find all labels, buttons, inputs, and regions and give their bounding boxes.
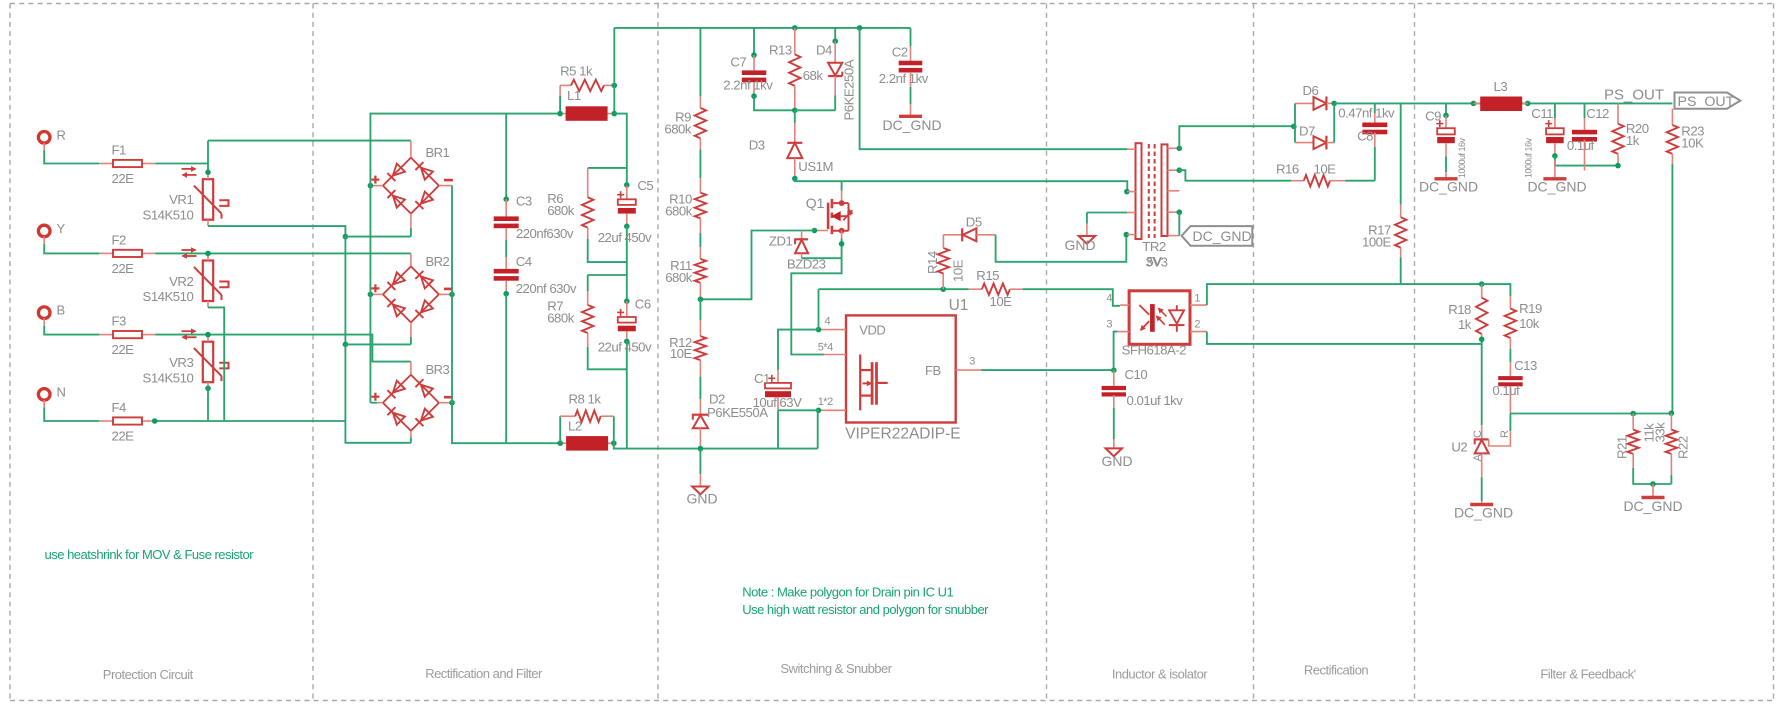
svg-text:220nf 630v: 220nf 630v: [516, 281, 577, 296]
svg-text:VIPER22ADIP-E: VIPER22ADIP-E: [845, 426, 960, 443]
svg-text:BR3: BR3: [426, 362, 450, 377]
svg-text:N: N: [57, 384, 66, 399]
svg-text:22E: 22E: [112, 171, 135, 186]
svg-text:1000uf 16v: 1000uf 16v: [1524, 137, 1534, 178]
svg-text:Rectification and Filter: Rectification and Filter: [425, 666, 543, 681]
svg-text:B: B: [57, 303, 65, 318]
svg-text:1000uf 16v: 1000uf 16v: [1457, 137, 1467, 178]
svg-text:A: A: [1472, 454, 1484, 462]
svg-text:SFH618A-2: SFH618A-2: [1122, 343, 1187, 358]
svg-text:S14K510: S14K510: [143, 208, 194, 223]
svg-text:680k: 680k: [547, 203, 575, 218]
svg-text:1: 1: [1194, 293, 1200, 305]
svg-text:2: 2: [1194, 319, 1200, 331]
svg-text:22uf 450v: 22uf 450v: [598, 230, 652, 245]
svg-text:C9: C9: [1425, 108, 1441, 123]
svg-text:33k: 33k: [1652, 422, 1667, 443]
svg-text:L3: L3: [1494, 79, 1508, 94]
svg-text:22E: 22E: [112, 261, 135, 276]
svg-text:C3: C3: [516, 194, 532, 209]
svg-text:4: 4: [825, 315, 831, 327]
svg-text:D3: D3: [749, 138, 765, 153]
svg-text:DC_GND: DC_GND: [1527, 178, 1586, 194]
svg-text:Rectification: Rectification: [1304, 662, 1369, 677]
svg-text:C4: C4: [516, 254, 532, 269]
svg-text:D7: D7: [1299, 124, 1315, 139]
svg-text:C7: C7: [730, 55, 746, 70]
svg-text:C5: C5: [637, 178, 653, 193]
svg-text:PS_OUT: PS_OUT: [1604, 87, 1664, 104]
svg-text:22E: 22E: [112, 342, 135, 357]
svg-text:1*2: 1*2: [818, 396, 833, 408]
svg-text:BR1: BR1: [426, 145, 450, 160]
svg-text:R: R: [57, 127, 66, 142]
svg-text:R21: R21: [1615, 436, 1630, 459]
svg-text:10E: 10E: [1314, 162, 1337, 177]
svg-text:0.1uf: 0.1uf: [1567, 138, 1595, 153]
svg-text:680k: 680k: [665, 270, 693, 285]
svg-text:R8 1k: R8 1k: [569, 391, 602, 406]
svg-text:R: R: [1499, 430, 1511, 438]
svg-text:BZD23: BZD23: [787, 256, 826, 271]
svg-text:Y: Y: [57, 221, 66, 236]
svg-text:680k: 680k: [664, 122, 692, 137]
svg-text:2.2nf 1kv: 2.2nf 1kv: [879, 71, 929, 86]
svg-text:DC_GND: DC_GND: [1193, 228, 1252, 244]
svg-text:US1M: US1M: [798, 159, 833, 174]
svg-text:Use high watt resistor and pol: Use high watt resistor and polygon for s…: [742, 602, 989, 617]
svg-text:FB: FB: [925, 363, 941, 378]
svg-text:VDD: VDD: [859, 322, 885, 337]
svg-text:Inductor & isolator: Inductor & isolator: [1112, 666, 1208, 681]
svg-text:C8: C8: [1357, 128, 1373, 143]
svg-text:R14: R14: [925, 251, 940, 274]
svg-text:R5 1k: R5 1k: [560, 64, 593, 79]
svg-text:F4: F4: [112, 400, 127, 415]
svg-text:22E: 22E: [112, 429, 135, 444]
svg-text:1k: 1k: [1458, 317, 1472, 332]
svg-text:Protection Circuit: Protection Circuit: [103, 667, 194, 682]
svg-text:2.2nf 1kv: 2.2nf 1kv: [723, 78, 773, 93]
svg-text:3: 3: [969, 356, 975, 368]
svg-text:680k: 680k: [547, 311, 575, 326]
svg-text:C6: C6: [635, 297, 651, 312]
svg-text:F1: F1: [112, 143, 127, 158]
svg-text:C13: C13: [1514, 358, 1537, 373]
svg-text:Switching & Snubber: Switching & Snubber: [780, 661, 892, 676]
svg-text:S14K510: S14K510: [143, 370, 194, 385]
svg-text:Note : Make polygon for Drain: Note : Make polygon for Drain pin IC U1: [742, 585, 953, 600]
svg-text:D4: D4: [816, 43, 832, 58]
svg-text:D5: D5: [966, 214, 982, 229]
svg-text:P6KE250A: P6KE250A: [842, 59, 857, 120]
svg-text:3V3: 3V3: [1146, 255, 1168, 270]
svg-text:0.1uf: 0.1uf: [1492, 383, 1520, 398]
svg-text:C2: C2: [892, 44, 908, 59]
svg-text:VR2: VR2: [169, 274, 193, 289]
svg-text:DC_GND: DC_GND: [1454, 505, 1513, 521]
svg-text:3: 3: [1106, 319, 1112, 331]
svg-text:5*4: 5*4: [818, 342, 833, 354]
svg-text:R19: R19: [1519, 301, 1542, 316]
svg-text:use heatshrink for MOV & Fuse: use heatshrink for MOV & Fuse resistor: [45, 547, 255, 562]
svg-text:R15: R15: [976, 268, 999, 283]
svg-text:Filter & Feedback': Filter & Feedback': [1540, 666, 1635, 681]
svg-text:D6: D6: [1303, 83, 1319, 98]
svg-text:F3: F3: [112, 314, 127, 329]
svg-text:1k: 1k: [1626, 133, 1640, 148]
svg-text:100E: 100E: [1362, 235, 1392, 250]
svg-text:TR2: TR2: [1142, 239, 1166, 254]
svg-text:Q1: Q1: [806, 195, 825, 211]
svg-text:GND: GND: [1101, 453, 1132, 469]
svg-text:GND: GND: [686, 491, 717, 507]
svg-text:C11: C11: [1531, 106, 1553, 121]
svg-text:C: C: [1472, 430, 1484, 438]
svg-text:10k: 10k: [1519, 316, 1540, 331]
svg-text:4: 4: [1106, 293, 1112, 305]
svg-text:C1: C1: [754, 371, 770, 386]
svg-text:0.47nf 1kv: 0.47nf 1kv: [1338, 106, 1395, 121]
svg-text:GND: GND: [1064, 237, 1095, 253]
svg-text:220nf630v: 220nf630v: [516, 226, 574, 241]
svg-text:R18: R18: [1448, 302, 1471, 317]
svg-text:L2: L2: [568, 419, 582, 434]
svg-text:DC_GND: DC_GND: [1623, 498, 1682, 514]
svg-text:R13: R13: [769, 43, 792, 58]
svg-text:10E: 10E: [670, 346, 693, 361]
svg-text:10E: 10E: [951, 259, 966, 282]
svg-text:DC_GND: DC_GND: [1419, 178, 1478, 194]
svg-text:VR3: VR3: [169, 355, 193, 370]
svg-text:ZD1: ZD1: [769, 234, 793, 249]
svg-text:U2: U2: [1451, 439, 1467, 454]
svg-text:10E: 10E: [990, 294, 1013, 309]
svg-text:S14K510: S14K510: [143, 289, 194, 304]
svg-text:0.01uf 1kv: 0.01uf 1kv: [1127, 393, 1184, 408]
svg-text:L1: L1: [567, 88, 581, 103]
svg-text:R16: R16: [1276, 162, 1299, 177]
svg-text:VR1: VR1: [169, 192, 193, 207]
svg-text:C10: C10: [1125, 367, 1148, 382]
svg-text:C12: C12: [1586, 106, 1609, 121]
svg-text:U1: U1: [949, 297, 969, 314]
svg-text:22uf 450v: 22uf 450v: [598, 340, 652, 355]
svg-text:PS_OUT: PS_OUT: [1678, 94, 1735, 110]
svg-text:10uf 63V: 10uf 63V: [753, 395, 802, 410]
svg-text:R22: R22: [1676, 436, 1691, 459]
svg-text:DC_GND: DC_GND: [882, 117, 941, 133]
svg-text:F2: F2: [112, 232, 127, 247]
svg-text:68k: 68k: [803, 68, 824, 83]
svg-text:10K: 10K: [1681, 136, 1704, 151]
svg-text:BR2: BR2: [426, 254, 450, 269]
svg-text:680k: 680k: [665, 204, 693, 219]
